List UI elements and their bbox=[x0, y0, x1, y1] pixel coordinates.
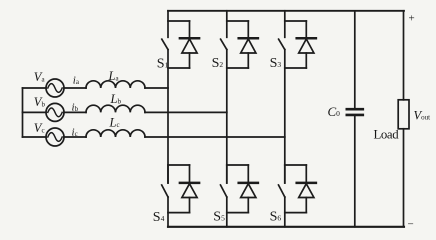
AC source Va bbox=[46, 79, 64, 97]
svg-text:S1: S1 bbox=[157, 56, 169, 71]
svg-text:Load: Load bbox=[374, 127, 400, 141]
wire: left neutral bus bbox=[22, 88, 24, 137]
wire: phase b from neutral bus to source bbox=[23, 111, 47, 113]
wire: top bus to capacitor C0 bbox=[354, 11, 356, 109]
svg-text:Lc: Lc bbox=[109, 116, 120, 130]
switch S1 bbox=[162, 11, 168, 50]
wire: top bus to load bbox=[403, 11, 405, 100]
AC source Vb bbox=[46, 103, 64, 121]
svg-text:−: − bbox=[408, 219, 414, 231]
diode D1 (antiparallel with S1) bbox=[180, 21, 199, 68]
diode D3 (antiparallel with S3) bbox=[297, 21, 316, 68]
svg-text:ia: ia bbox=[73, 75, 80, 87]
inductor Lb bbox=[86, 105, 145, 112]
wire: phase a from neutral bus to source bbox=[23, 87, 47, 89]
svg-text:La: La bbox=[108, 69, 120, 83]
wire: bridge leg 3 vertical (bottom segment) bbox=[284, 197, 286, 227]
wire: S2 cell top connection bbox=[227, 20, 249, 22]
svg-text:S5: S5 bbox=[213, 210, 225, 225]
capacitor C0 bbox=[347, 109, 363, 115]
wire: source Vb to inductor Lb bbox=[64, 111, 86, 113]
wire: S3 cell top connection bbox=[285, 20, 307, 22]
switch S5 bbox=[221, 165, 227, 197]
wire: bridge leg 2 vertical (bottom segment) bbox=[226, 197, 228, 227]
wire: negative DC bus (bottom) bbox=[168, 226, 404, 228]
wire: bridge leg 3 vertical (middle segment) bbox=[284, 50, 286, 183]
wire: S6 cell top connection bbox=[285, 164, 307, 166]
switch S4 bbox=[162, 165, 168, 197]
wire: S2 cell bottom connection bbox=[227, 67, 249, 69]
wire: source Vc to inductor Lc bbox=[64, 136, 86, 138]
diode D4 (antiparallel with S4) bbox=[180, 165, 199, 213]
wire: bridge leg 1 vertical (middle segment) bbox=[167, 50, 169, 183]
diode D6 (antiparallel with S6) bbox=[297, 165, 316, 213]
wire: S4 cell top connection bbox=[168, 164, 190, 166]
svg-text:S6: S6 bbox=[270, 209, 282, 224]
wire: source Va to inductor La bbox=[64, 87, 86, 89]
wire: S4 cell bottom connection bbox=[168, 212, 190, 214]
svg-text:S3: S3 bbox=[270, 56, 282, 71]
wire: bridge leg 2 vertical (middle segment) bbox=[226, 50, 228, 183]
wire: S1 cell top connection bbox=[168, 20, 190, 22]
switch S6 bbox=[279, 165, 285, 197]
svg-text:C0: C0 bbox=[328, 104, 341, 119]
wire: inductor La to bridge leg bbox=[145, 87, 168, 89]
switch S2 bbox=[221, 11, 227, 50]
diode D2 (antiparallel with S2) bbox=[239, 21, 258, 68]
inductor La bbox=[86, 81, 145, 88]
wire: bridge leg 1 vertical (bottom segment) bbox=[167, 197, 169, 227]
svg-text:+: + bbox=[409, 13, 415, 25]
svg-text:S2: S2 bbox=[212, 56, 224, 71]
svg-text:Lb: Lb bbox=[110, 92, 122, 106]
inductor Lc bbox=[86, 130, 145, 137]
wire: S5 cell bottom connection bbox=[227, 212, 249, 214]
svg-text:Vc: Vc bbox=[34, 121, 45, 135]
load resistor (Load) bbox=[398, 100, 409, 129]
svg-text:S4: S4 bbox=[153, 210, 165, 225]
svg-text:Vb: Vb bbox=[34, 95, 46, 109]
wire: capacitor C0 to bottom bus bbox=[354, 115, 356, 227]
wire: S1 cell bottom connection bbox=[168, 67, 190, 69]
wire: positive DC bus (top) bbox=[168, 10, 404, 12]
wire: S3 cell bottom connection bbox=[285, 67, 307, 69]
AC source Vc bbox=[46, 128, 64, 146]
svg-text:Va: Va bbox=[34, 70, 46, 84]
wire: phase c from neutral bus to source bbox=[23, 136, 47, 138]
switch S3 bbox=[279, 11, 285, 50]
svg-text:ib: ib bbox=[72, 102, 79, 114]
svg-text:ic: ic bbox=[72, 127, 78, 139]
wire: S5 cell top connection bbox=[227, 164, 249, 166]
wire: S6 cell bottom connection bbox=[285, 212, 307, 214]
diode D5 (antiparallel with S5) bbox=[239, 165, 258, 213]
wire: inductor Lc to bridge leg bbox=[145, 136, 285, 138]
wire: load to bottom bus bbox=[403, 129, 405, 227]
svg-text:Vout: Vout bbox=[414, 109, 431, 123]
wire: inductor Lb to bridge leg bbox=[145, 111, 227, 113]
